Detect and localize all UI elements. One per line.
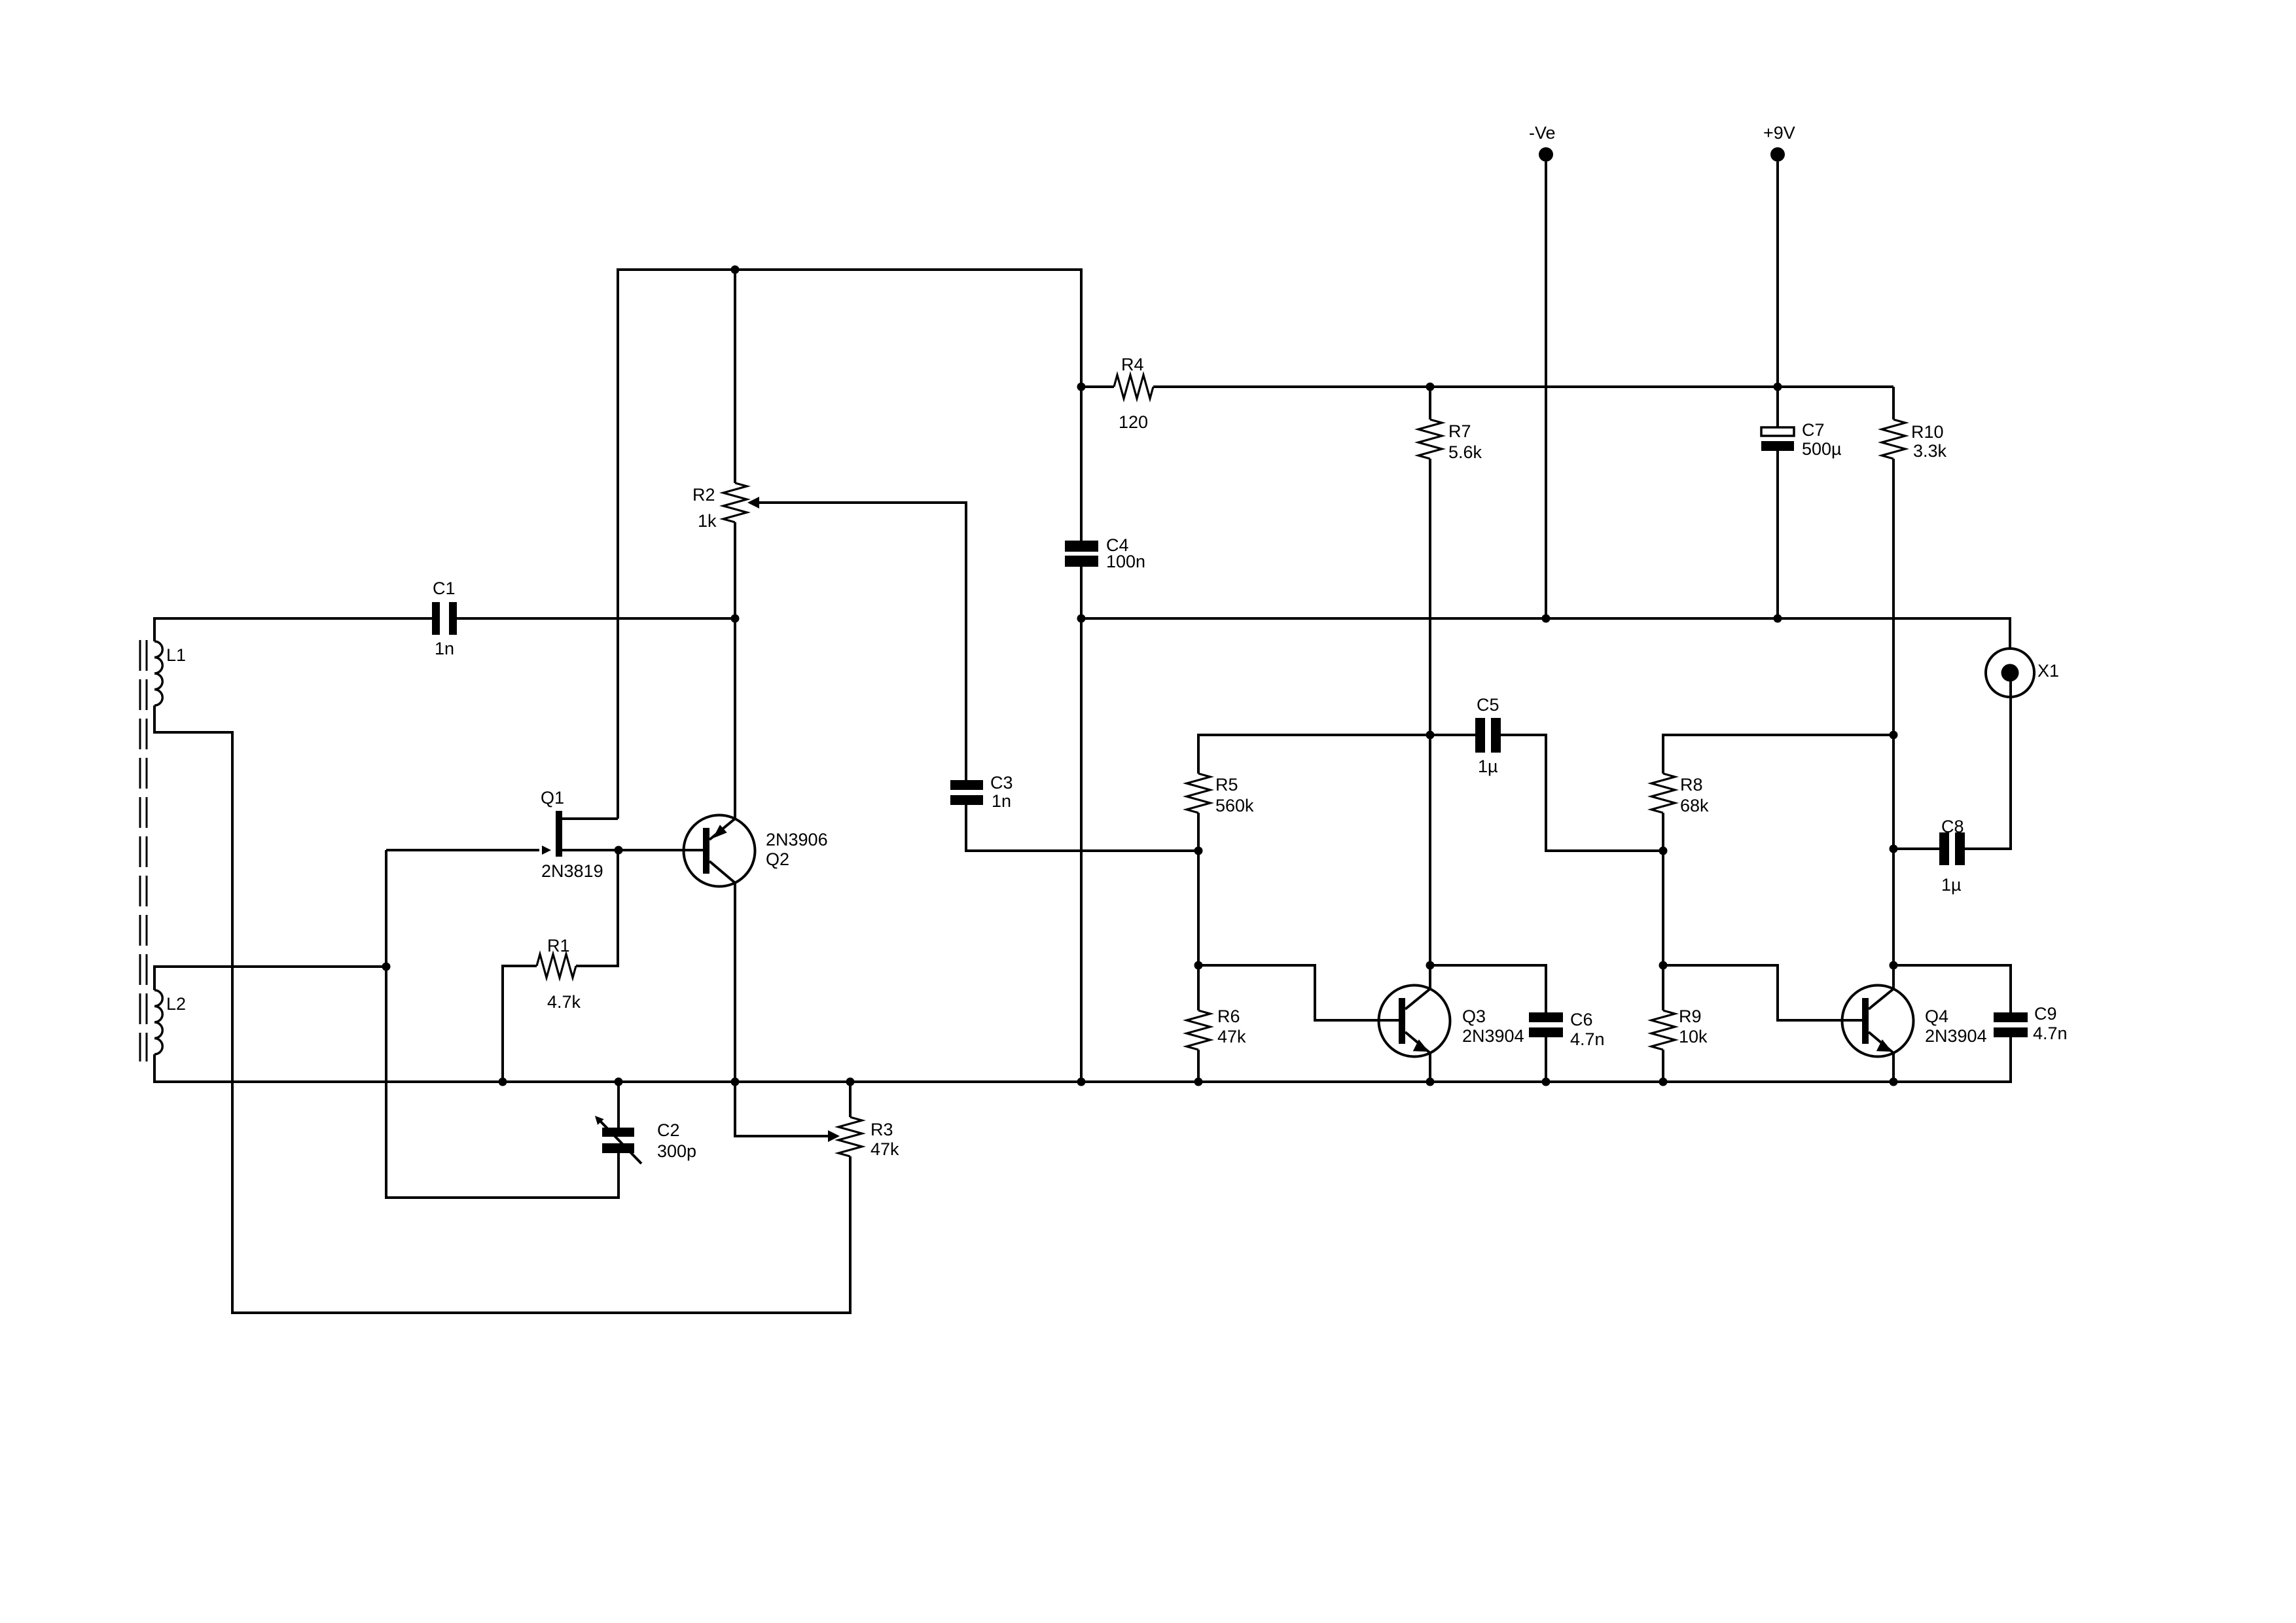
wire Q1 gate with arrow <box>386 849 539 851</box>
svg-text:R10: R10 <box>1911 422 1944 442</box>
svg-text:L2: L2 <box>166 994 186 1014</box>
svg-text:2N3904: 2N3904 <box>1462 1026 1524 1046</box>
resistor R6 47k <box>1187 1010 1210 1050</box>
wire C5 right jog down to R8 column <box>1501 735 1663 851</box>
resistor R9 10k <box>1651 1010 1675 1050</box>
wire C8 right to X1 bottom <box>1965 673 2011 849</box>
wire C6 bottom to bus <box>1545 1037 1547 1082</box>
svg-text:Q2: Q2 <box>766 849 789 869</box>
capacitor C3 1n <box>950 780 983 790</box>
svg-text:R4: R4 <box>1121 355 1144 374</box>
junction dots <box>731 266 740 274</box>
svg-text:1µ: 1µ <box>1941 875 1962 895</box>
wire Q1 drain <box>562 817 618 820</box>
svg-text:L1: L1 <box>166 645 186 665</box>
svg-text:560k: 560k <box>1215 796 1254 815</box>
svg-text:Q1: Q1 <box>541 788 564 808</box>
wire R10 bottom to Q4 collector <box>1892 459 1895 989</box>
svg-text:C8: C8 <box>1941 817 1964 836</box>
svg-text:C7: C7 <box>1802 420 1825 440</box>
svg-text:Q4: Q4 <box>1925 1007 1948 1026</box>
svg-text:C3: C3 <box>990 773 1013 793</box>
svg-text:R8: R8 <box>1680 775 1703 794</box>
resistor R3 47k potentiometer <box>849 1082 852 1117</box>
capacitor C7 500u electrolytic <box>1761 427 1794 436</box>
svg-text:4.7n: 4.7n <box>1570 1029 1605 1049</box>
svg-text:47k: 47k <box>870 1139 899 1159</box>
capacitor C8 1u <box>1939 832 1949 865</box>
svg-text:10k: 10k <box>1679 1027 1708 1046</box>
wire Q4 base jog <box>1663 965 1862 1020</box>
wire C9 top from Q4 collector node <box>1893 965 2011 1012</box>
svg-text:+9V: +9V <box>1763 123 1795 143</box>
wire R2 wiper to C3 <box>747 497 759 508</box>
capacitor C1 <box>432 602 440 635</box>
inductor L1 <box>154 641 162 705</box>
wire main bus to X1 <box>1081 618 2010 649</box>
wire C1 left segment / L1 top lead <box>154 618 432 641</box>
transistor Q4 (NPN 2N3904) <box>1842 986 1914 1057</box>
transistor Q3 (NPN 2N3904) <box>1379 986 1450 1057</box>
svg-text:3.3k: 3.3k <box>1913 441 1947 461</box>
wire R3 wiper from bottom bus <box>735 1082 829 1136</box>
wire C4 column below plates to bottom bus <box>1080 565 1083 1082</box>
svg-text:C9: C9 <box>2034 1004 2057 1024</box>
resistor R8 68k <box>1651 774 1675 813</box>
terminal +9V <box>1770 147 1785 162</box>
wire top rectangle (R2 top / C4 top) <box>618 270 1081 819</box>
wire C5 row left / R5 top <box>1198 735 1475 774</box>
svg-text:2N3904: 2N3904 <box>1925 1026 1987 1046</box>
resistor R5 560k <box>1187 774 1210 813</box>
transformer core <box>139 640 141 1061</box>
svg-text:R9: R9 <box>1679 1007 1702 1026</box>
svg-text:1µ: 1µ <box>1478 757 1498 776</box>
wire C8 left to Q4 collector column <box>1893 847 1939 850</box>
svg-text:2N3906: 2N3906 <box>766 830 828 849</box>
wire R9 bottom to bus <box>1662 1050 1664 1082</box>
wire C7 bottom to bus <box>1776 451 1779 618</box>
svg-text:1k: 1k <box>698 511 717 531</box>
svg-text:R2: R2 <box>692 485 715 505</box>
resistor R1 4.7k <box>503 966 537 1082</box>
svg-text:C6: C6 <box>1570 1010 1593 1029</box>
svg-text:R6: R6 <box>1217 1007 1240 1026</box>
transistor Q2 (PNP 2N3906) <box>684 815 755 887</box>
capacitor C9 4.7n <box>1994 1012 2028 1022</box>
svg-text:2N3819: 2N3819 <box>541 861 603 881</box>
wire +9V to C7 <box>1776 162 1779 427</box>
capacitor C6 4.7n <box>1529 1012 1563 1022</box>
wire R5 bottom to R6 top <box>1197 813 1200 1010</box>
svg-text:C2: C2 <box>657 1120 680 1140</box>
wire Q2 emitter top <box>734 619 736 819</box>
capacitor C5 1u <box>1475 718 1485 753</box>
wire L2 top to Q1 gate net <box>154 967 386 990</box>
wire R8 top row <box>1663 735 1893 774</box>
wire bottom bus <box>154 1037 2011 1082</box>
wire C3 bottom to R5 column <box>966 805 1198 851</box>
wire C1 right segment to R2 bottom junction <box>457 617 735 620</box>
svg-text:100n: 100n <box>1106 552 1145 571</box>
resistor R7 5.6k <box>1429 387 1431 419</box>
svg-text:5.6k: 5.6k <box>1448 442 1482 462</box>
capacitor C4 100n <box>1065 541 1098 552</box>
connector X1 <box>1986 649 2034 697</box>
inductor L2 <box>154 990 162 1054</box>
svg-text:C1: C1 <box>433 579 456 598</box>
svg-text:120: 120 <box>1119 412 1148 432</box>
svg-text:R7: R7 <box>1448 421 1471 441</box>
terminal -Ve <box>1539 147 1553 162</box>
svg-text:300p: 300p <box>657 1141 696 1161</box>
wire L1 bottom to R3 bottom rail <box>154 705 850 1313</box>
svg-text:X1: X1 <box>2037 661 2059 681</box>
svg-text:68k: 68k <box>1680 796 1709 815</box>
svg-text:4.7k: 4.7k <box>547 992 581 1012</box>
wire Q1 source to Q2 base <box>562 849 703 851</box>
wire Q2 collector bottom <box>734 883 736 1082</box>
resistor R2 1k potentiometer <box>734 270 736 483</box>
wire C6 top from Q3 collector node <box>1430 965 1546 1012</box>
wire Q4 emitter to bus <box>1892 1053 1895 1082</box>
wire gate column down to C2 return <box>386 850 619 1198</box>
wire R8 bottom to R9 top <box>1662 813 1664 1010</box>
svg-text:47k: 47k <box>1217 1027 1246 1046</box>
transistor Q1 (JFET 2N3819) <box>556 811 562 857</box>
svg-text:R1: R1 <box>547 936 570 955</box>
wire R6 bottom to bus <box>1197 1050 1200 1082</box>
svg-text:-Ve: -Ve <box>1529 123 1556 143</box>
svg-text:1n: 1n <box>992 791 1011 811</box>
svg-text:Q3: Q3 <box>1462 1007 1486 1026</box>
svg-text:R5: R5 <box>1215 775 1238 794</box>
svg-text:500µ: 500µ <box>1802 439 1842 459</box>
svg-text:R3: R3 <box>870 1120 893 1139</box>
resistor R4 120 <box>1081 385 1114 388</box>
resistor R10 3.3k <box>1892 387 1895 419</box>
svg-text:4.7n: 4.7n <box>2033 1024 2068 1043</box>
capacitor C2 300p variable <box>617 1082 620 1128</box>
wire Q3 emitter to bus <box>1429 1053 1431 1082</box>
svg-text:C5: C5 <box>1477 695 1499 715</box>
svg-text:1n: 1n <box>435 639 454 658</box>
wire -Ve to bus <box>1545 162 1547 618</box>
wire Q3 base jog <box>1198 965 1399 1020</box>
wire R7 bottom to Q3 collector <box>1429 459 1431 989</box>
